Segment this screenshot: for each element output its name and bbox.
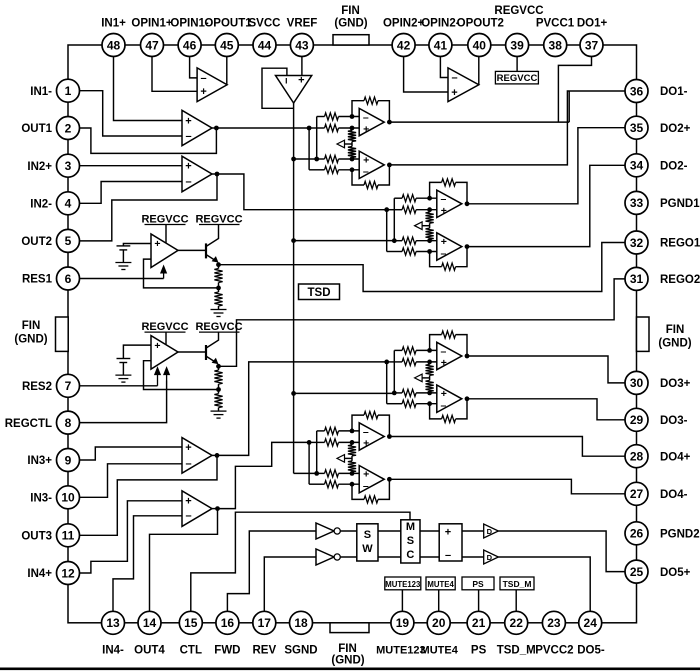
node BTL2 amp2 - input — [427, 249, 432, 254]
svg-text:–: – — [363, 426, 369, 438]
svg-text:C: C — [406, 549, 414, 561]
wire TSD_M box to pin22 — [515, 590, 517, 623]
resistor BTL4-R2 (to amp1 +) — [325, 439, 339, 446]
wire pin13 IN4- to amp U-IN4 - input — [113, 516, 182, 623]
svg-text:DO5+: DO5+ — [660, 567, 691, 579]
node U-IN4 output junction — [212, 508, 218, 510]
pin 46 circle — [178, 34, 201, 57]
svg-text:+: + — [185, 115, 191, 127]
pin 32 circle — [625, 231, 648, 254]
wire VREF output rail (vertical) — [293, 103, 295, 473]
op-amp BTL1-A1 (upper) — [359, 108, 384, 135]
pin 30 circle — [625, 371, 648, 394]
bias arrow marker BTL2 (half-supply reference) — [415, 222, 423, 230]
resistor REG1 divider lower — [218, 288, 220, 292]
svg-text:–: – — [451, 72, 457, 84]
pin 29 circle — [625, 408, 648, 431]
node BTL2 amp2 + input — [427, 238, 432, 243]
svg-text:(GND): (GND) — [14, 334, 47, 346]
node BTL3 bus A junction — [384, 360, 389, 365]
resistor BTL3-R1 (to amp1 -) — [402, 347, 416, 354]
svg-text:REGCTL: REGCTL — [5, 418, 52, 430]
resistor BTL4-RF2 (amp2 feedback) — [364, 496, 378, 503]
pin 10 circle — [57, 486, 80, 509]
svg-text:19: 19 — [396, 616, 410, 630]
svg-text:43: 43 — [295, 38, 309, 52]
svg-text:IN4+: IN4+ — [27, 568, 52, 580]
svg-text:38: 38 — [549, 38, 563, 52]
svg-text:–: – — [185, 176, 191, 188]
node BTL3 amp1 - input — [427, 348, 432, 353]
SW block box — [357, 524, 378, 561]
pin 8 circle — [57, 411, 80, 434]
pin 36 circle — [625, 80, 648, 103]
svg-text:S: S — [407, 535, 414, 547]
op-amp BTL1-A2 (lower) — [359, 151, 384, 178]
transistor REG1 pass NPN base bar — [205, 243, 207, 258]
resistor BTL3 mid divider lower (vertical) — [429, 375, 431, 380]
node BTL1 amp2 output — [387, 163, 392, 168]
svg-text:31: 31 — [630, 272, 644, 286]
wire BTL1 amp1 output to pin37 DO1+ — [389, 121, 569, 123]
node BTL1 amp2 - input — [350, 167, 355, 172]
PS box — [462, 577, 494, 590]
op-amp U-IN1 (IN1 input amp) — [182, 110, 212, 145]
REGVCC boxed label under pin39 — [495, 71, 538, 84]
pin 18 circle — [290, 611, 313, 634]
wire U-VREF feedback loop — [262, 68, 294, 108]
wire BTL2 riser bus A to R4 — [386, 210, 388, 252]
svg-text:MUTE123: MUTE123 — [385, 580, 421, 589]
wire pin36 DO1- from BTL1 amp2 output — [389, 91, 636, 165]
pin 4 circle — [57, 192, 80, 215]
svg-text:M: M — [406, 521, 415, 533]
wire BTL2 riser bus B to R1 — [393, 198, 395, 241]
svg-text:9: 9 — [65, 453, 72, 467]
MUTE123 box — [385, 577, 421, 590]
svg-text:PVCC1: PVCC1 — [536, 18, 575, 30]
svg-text:13: 13 — [106, 616, 120, 630]
pin 37 circle — [580, 34, 603, 57]
op-amp BTL3-A2 (lower) — [437, 385, 462, 412]
svg-text:IN4-: IN4- — [102, 645, 124, 657]
wire pin29 DO3- from BTL3 amp2 output — [467, 399, 637, 420]
inverter G1 (FWD) — [316, 523, 334, 539]
svg-text:–: – — [363, 112, 369, 124]
wire BTL3 R4 row wire — [387, 403, 402, 405]
wire MUTE4 box to pin20 — [438, 590, 440, 623]
pin 38 circle — [544, 34, 567, 57]
node BTL2 bus B junction — [392, 238, 397, 243]
pin 34 circle — [625, 154, 648, 177]
transistor REG2 emitter — [206, 356, 216, 363]
svg-text:REGVCC: REGVCC — [141, 214, 188, 226]
resistor BTL1 mid divider lower (vertical) — [351, 142, 353, 147]
svg-text:REV: REV — [252, 645, 276, 657]
MUTE4 box — [426, 577, 455, 590]
pin 22 circle — [505, 611, 528, 634]
svg-text:IN3+: IN3+ — [27, 455, 52, 467]
pin 14 circle — [138, 611, 161, 634]
resistor BTL4-R4 (to amp2 -) — [325, 481, 339, 488]
svg-text:TSD_M: TSD_M — [497, 645, 536, 657]
resistor REG2 divider lower — [218, 390, 220, 394]
svg-text:W: W — [362, 543, 373, 555]
svg-text:24: 24 — [584, 616, 598, 630]
pin 25 circle — [625, 560, 648, 583]
resistor BTL1 mid divider upper (vertical) — [351, 128, 353, 131]
resistor BTL2-RF1 (amp1 feedback) — [442, 179, 456, 186]
node REG2 emitter output — [216, 364, 221, 369]
resistor BTL2-R1 (to amp1 -) — [402, 195, 416, 202]
wire pin7 RES2 to regulator 2 — [68, 385, 158, 387]
wire BTL2 bus A segment — [387, 209, 402, 211]
svg-text:2: 2 — [65, 121, 72, 135]
wire pin27 DO4- from BTL4 amp2 output — [389, 479, 636, 494]
node BTL2 amp1 - input — [427, 196, 432, 201]
resistor BTL1-R1 (to amp1 -) — [325, 113, 339, 120]
wire BTL4 R4 row wire — [309, 483, 324, 485]
svg-text:CTL: CTL — [180, 645, 202, 657]
wire MSC to comparator row1 — [420, 530, 439, 532]
pin 47 circle — [141, 34, 164, 57]
wire BTL1 R4 row wire — [309, 169, 324, 171]
wire BTL2 amp1 feedback loop — [430, 182, 442, 198]
resistor BTL2-R2 (to amp1 +) — [402, 206, 416, 213]
wire pin48 IN1+ to amp U-IN1 + input — [114, 45, 183, 121]
pin 45 circle — [215, 34, 238, 57]
svg-text:8: 8 — [65, 416, 72, 430]
resistor BTL1-R2 (to amp1 +) — [325, 124, 339, 131]
wire REG2 output to pin31 REGO2 — [219, 279, 637, 366]
op-amp U-OP1 (OPIN1/OPOUT1) — [197, 68, 227, 102]
FIN (GND) tab bottom — [330, 623, 369, 633]
svg-text:OPIN2+: OPIN2+ — [383, 18, 425, 30]
wire pin10 IN3- to amp U-IN3 - input — [68, 464, 182, 498]
wire comparator to buffer D2 — [462, 556, 484, 558]
node REG1 divider mid — [218, 283, 220, 288]
wire BTL4 amp1 feedback loop — [352, 415, 364, 431]
svg-text:VREF: VREF — [287, 18, 318, 30]
pin 24 circle — [579, 611, 602, 634]
wire pin39 REGVCC to REGVCC box label — [516, 45, 518, 71]
svg-text:+: + — [445, 526, 451, 538]
svg-text:+: + — [441, 388, 447, 400]
TSD block box — [299, 284, 340, 300]
svg-text:MUTE4: MUTE4 — [427, 580, 454, 589]
wire BTL4 riser bus B to R1 — [316, 431, 318, 474]
pin 11 circle — [57, 524, 80, 547]
wire U-IN4 output to BTL4 bus A — [218, 442, 310, 508]
svg-text:REGO1: REGO1 — [660, 238, 700, 250]
wire BTL3 riser bus A to R4 — [386, 362, 388, 404]
FIN (GND) tab left — [56, 317, 69, 351]
wire pin5 OUT2 to amp U-IN2 output node — [68, 174, 217, 241]
svg-text:+: + — [363, 438, 369, 450]
wire BTL4 riser bus A to R4 — [308, 442, 310, 484]
svg-text:14: 14 — [143, 616, 157, 630]
svg-text:OUT3: OUT3 — [21, 531, 52, 543]
comparator block box — [439, 524, 462, 561]
BTL3 input resistor R-1 row wire — [394, 349, 402, 351]
svg-text:IN2-: IN2- — [30, 199, 52, 211]
node BTL1 amp1 - input — [350, 114, 355, 119]
node BTL3 amp1 output — [465, 354, 470, 359]
wire pin40 OPOUT2 from op-amp U-OP2 output — [478, 45, 480, 85]
pin 27 circle — [625, 482, 648, 505]
BTL4 input resistor R-1 row wire — [317, 430, 325, 432]
wire pin15 CTL to MSC block — [191, 512, 410, 623]
pin 41 circle — [429, 34, 452, 57]
svg-text:SVCC: SVCC — [249, 18, 281, 30]
wire BTL1 riser bus A to R4 — [308, 128, 310, 170]
wire G1 to SW block — [340, 530, 357, 532]
svg-text:SGND: SGND — [284, 645, 317, 657]
node BTL3 amp2 + input — [427, 391, 432, 396]
op-amp U-OP2 (OPIN2/OPOUT2) — [448, 68, 479, 102]
pin 42 circle — [392, 34, 415, 57]
svg-text:REGVCC: REGVCC — [195, 214, 242, 226]
wire BTL4 bus B segment — [317, 472, 325, 474]
resistor BTL3-R4 (to amp2 -) — [402, 400, 416, 407]
svg-text:4: 4 — [65, 197, 72, 211]
capacitor REG2 reference — [117, 358, 131, 360]
op-amp U-IN4 (IN4 input amp) — [182, 491, 212, 527]
svg-text:37: 37 — [585, 38, 599, 52]
wire pin12 IN4+ to amp U-IN4 + input — [68, 501, 182, 573]
node U-IN2 output junction — [212, 173, 217, 175]
wire pin17 REV to inverter 2 — [264, 557, 316, 623]
resistor BTL1-R3 (to amp2 +) — [325, 155, 339, 162]
svg-text:IN3-: IN3- — [30, 493, 52, 505]
pin 9 circle — [57, 449, 80, 472]
node BTL1 bus B junction — [314, 157, 319, 162]
node VREF rail to BTL2 bus B — [291, 238, 296, 243]
ground REG2 reference cap — [122, 363, 124, 376]
svg-text:–: – — [445, 550, 451, 562]
svg-text:DO3+: DO3+ — [660, 378, 691, 390]
node BTL1 amp1 output — [387, 120, 392, 125]
svg-text:REGVCC: REGVCC — [497, 73, 538, 84]
svg-text:RES1: RES1 — [22, 274, 53, 286]
wire REG2 feedback to - input — [144, 361, 219, 390]
startup arrow regulator 1 — [163, 271, 165, 279]
wire REG1 feedback to - input — [144, 259, 219, 288]
node BTL4 amp1 output — [387, 434, 392, 439]
wire REG1 + input to reference cap — [123, 244, 151, 246]
pin 26 circle — [625, 522, 648, 545]
BTL1 input resistor R-1 row wire — [317, 116, 325, 118]
wire BTL3 amp1 feedback loop — [430, 335, 442, 351]
svg-text:25: 25 — [630, 565, 644, 579]
wire D2 output to pin24 DO5- — [498, 557, 590, 623]
wire VREF rail elbow to BTL4 bus B — [294, 472, 317, 474]
resistor REG1 divider upper — [218, 265, 220, 269]
svg-text:+: + — [185, 161, 191, 173]
wire pin28 DO4+ from BTL4 amp1 output — [389, 437, 636, 457]
svg-text:(GND): (GND) — [334, 18, 367, 30]
svg-text:34: 34 — [630, 159, 644, 173]
node BTL3 amp1 + input — [427, 360, 432, 365]
svg-text:22: 22 — [510, 616, 524, 630]
wire MSC to comparator row2 — [420, 556, 439, 558]
svg-text:PS: PS — [472, 579, 484, 589]
op-amp U-IN3 (IN3 input amp) — [182, 438, 212, 474]
svg-text:D: D — [487, 527, 493, 536]
pin 19 circle — [391, 611, 414, 634]
resistor BTL2-RF2 (amp2 feedback) — [442, 263, 456, 270]
resistor BTL4 mid divider upper (vertical) — [351, 442, 353, 445]
svg-text:15: 15 — [184, 616, 198, 630]
IC boundary rectangle — [68, 45, 637, 623]
pin 7 circle — [57, 374, 80, 397]
wire pin34 DO2- from BTL2 amp2 output — [467, 165, 637, 246]
svg-text:+: + — [200, 86, 206, 98]
wire pin16 FWD to inverter 1 — [227, 531, 316, 623]
op-amp BTL2-A2 (lower) — [437, 233, 462, 260]
svg-text:11: 11 — [62, 529, 75, 543]
startup arrow regulator 2 left — [157, 372, 159, 386]
wire pin42 OPIN2+ to op-amp U-OP2 + input — [404, 45, 448, 92]
svg-text:1: 1 — [65, 84, 72, 98]
resistor REG2 divider upper — [218, 366, 220, 370]
svg-text:+: + — [154, 238, 160, 250]
svg-text:–: – — [440, 193, 446, 205]
op-amp U-VREF buffer (points down) — [276, 76, 312, 104]
resistor BTL1-RF1 (amp1 feedback) — [364, 97, 378, 104]
resistor BTL3-R3 (to amp2 +) — [402, 389, 416, 396]
svg-text:(GND): (GND) — [331, 655, 364, 667]
svg-text:MUTE123: MUTE123 — [376, 645, 426, 657]
wire U-IN3 output to BTL3 bus A — [217, 362, 387, 456]
svg-text:+: + — [441, 205, 447, 217]
svg-text:16: 16 — [221, 616, 235, 630]
svg-text:21: 21 — [472, 616, 486, 630]
svg-text:TSD: TSD — [308, 287, 331, 299]
pin 31 circle — [625, 267, 648, 290]
TSD_M box — [500, 577, 534, 590]
svg-text:–: – — [363, 166, 369, 178]
op-amp U-IN2 (IN2 input amp) — [182, 156, 212, 192]
ground REG2 divider — [218, 408, 220, 412]
svg-text:46: 46 — [183, 38, 197, 52]
wire REG1 base drive — [178, 249, 205, 251]
node BTL3 bus B junction — [392, 391, 397, 396]
wire pin6 RES1 to regulator 1 — [68, 278, 164, 280]
svg-text:7: 7 — [65, 379, 72, 393]
node BTL4 amp2 output — [387, 477, 392, 482]
svg-text:–: – — [185, 458, 191, 470]
wire REGVCC drop to op-amp REG2 — [165, 332, 167, 344]
wire SW to MSC row1 — [378, 530, 401, 532]
svg-text:48: 48 — [107, 38, 121, 52]
svg-text:+: + — [363, 154, 369, 166]
op-amp REG1 error amp — [151, 234, 178, 268]
svg-text:DO4-: DO4- — [660, 489, 688, 501]
svg-text:18: 18 — [294, 616, 308, 630]
svg-text:DO2-: DO2- — [660, 161, 688, 173]
pin 15 circle — [179, 611, 202, 634]
svg-text:–: – — [185, 510, 191, 522]
svg-text:12: 12 — [61, 566, 75, 580]
node BTL4 amp2 + input — [350, 471, 355, 476]
pin 17 circle — [253, 611, 276, 634]
svg-text:REGVCC: REGVCC — [494, 5, 543, 17]
node BTL4 amp1 + input — [350, 440, 355, 445]
wire BTL4 bus A segment — [309, 441, 324, 443]
svg-text:FIN: FIN — [338, 643, 357, 655]
node BTL3 amp2 - input — [427, 401, 432, 406]
wire MUTE123 box to pin19 — [401, 590, 403, 623]
resistor BTL4-R3 (to amp2 +) — [325, 470, 339, 477]
node BTL4 amp1 - input — [350, 429, 355, 434]
FIN (GND) tab top — [333, 35, 369, 45]
node REG1 emitter output — [216, 262, 221, 267]
svg-text:–: – — [440, 345, 446, 357]
wire VREF rail to BTL2 bus B — [294, 240, 395, 242]
svg-text:+: + — [363, 469, 369, 481]
resistor BTL3-R2 (to amp1 +) — [402, 358, 416, 365]
resistor BTL2 mid divider lower (vertical) — [429, 223, 431, 228]
wire D1 output to pin25 DO5+ — [498, 531, 636, 572]
svg-text:OPOUT1: OPOUT1 — [204, 18, 252, 30]
resistor BTL4-R1 (to amp1 -) — [325, 427, 339, 434]
wire pin11 OUT3 to amp U-IN3 output node — [68, 455, 217, 535]
wire REG2 base drive — [178, 351, 205, 353]
pin 39 circle — [506, 34, 529, 57]
svg-text:DO2+: DO2+ — [660, 123, 691, 135]
op-amp BTL4-A1 (upper) — [359, 423, 384, 450]
svg-text:47: 47 — [145, 38, 159, 52]
svg-text:28: 28 — [630, 450, 644, 464]
wire VREF rail to BTL3 bus B — [294, 392, 395, 394]
pin 23 circle — [542, 611, 565, 634]
op-amp BTL3-A1 (upper) — [437, 342, 462, 369]
wire BTL3 amp2 feedback loop — [430, 404, 442, 419]
wire BTL3 bus A segment — [387, 361, 402, 363]
node BTL2 amp1 + input — [427, 207, 432, 212]
wire SW to MSC row2 — [378, 556, 401, 558]
pin 12 circle — [57, 562, 80, 585]
svg-text:DO3-: DO3- — [660, 415, 688, 427]
pin 28 circle — [625, 445, 648, 468]
bias arrow marker BTL1 (half-supply reference) — [337, 140, 345, 148]
op-amp BTL2-A1 (upper) — [437, 190, 462, 217]
svg-text:IN1-: IN1- — [30, 86, 52, 98]
resistor BTL1-R4 (to amp2 -) — [325, 166, 339, 173]
pin 20 circle — [427, 611, 450, 634]
svg-text:OUT4: OUT4 — [134, 645, 165, 657]
svg-text:42: 42 — [397, 38, 411, 52]
svg-text:+: + — [451, 87, 457, 99]
svg-text:10: 10 — [61, 491, 75, 505]
pin 33 circle — [625, 191, 648, 214]
svg-text:+: + — [185, 496, 191, 508]
wire U-IN1 output to BTL1 bus A — [216, 127, 309, 129]
svg-text:45: 45 — [220, 38, 234, 52]
svg-text:44: 44 — [258, 38, 272, 52]
svg-text:IN2+: IN2+ — [27, 161, 52, 173]
pin 1 circle — [57, 79, 80, 102]
wire pin4 IN2- to amp U-IN2 - input — [68, 182, 182, 204]
svg-text:40: 40 — [473, 38, 487, 52]
wire pin2 OUT1 to amp U-IN1 output node — [68, 128, 216, 153]
svg-text:–: – — [440, 400, 446, 412]
wire BTL1 bus A segment — [309, 127, 324, 129]
svg-text:OPIN2-: OPIN2- — [421, 18, 460, 30]
transistor REG2 pass NPN base bar — [205, 345, 207, 360]
ground REG1 reference cap — [122, 250, 124, 263]
